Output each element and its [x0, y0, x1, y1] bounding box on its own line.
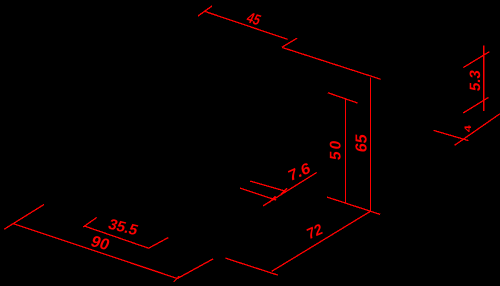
svg-text:5.3: 5.3	[467, 69, 484, 92]
dimension 35.5: left tick	[83, 217, 97, 227]
dimension 45: right tick	[282, 38, 297, 47]
dimension 35.5: right extension line	[149, 238, 169, 249]
dimension 35.5: dimension line	[85, 226, 149, 248]
dimension 45: dimension line	[205, 11, 288, 39]
dimension 45: left tick	[198, 6, 212, 16]
svg-text:65: 65	[352, 133, 370, 153]
dimension 50: vertical dimension line	[344, 99, 346, 202]
svg-text:7.6: 7.6	[287, 159, 313, 185]
svg-text:90: 90	[88, 233, 112, 254]
dimension 65: top extension line (oblique)	[282, 48, 380, 80]
dimension 7.6: upper tick	[281, 188, 287, 194]
dimension 7.6: upper extension line	[250, 181, 285, 191]
shared bottom extension line for 50 and 65	[327, 197, 380, 214]
dimension 90: dimension line	[14, 224, 177, 279]
dimension 4: extension line	[434, 130, 469, 140]
svg-text:72: 72	[305, 221, 324, 244]
dimension 65: vertical dimension line	[369, 77, 371, 211]
svg-text:4: 4	[463, 125, 473, 132]
dimension 72: bottom extension line	[226, 258, 278, 275]
dimension 5.3: top extension line	[463, 52, 489, 68]
dimension 7.6: lower tick	[269, 196, 275, 202]
dimension 72: dimension line	[272, 211, 371, 271]
dimension 7.6: lower extension line	[240, 188, 276, 200]
dimension 5.3: bottom extension line	[463, 97, 488, 113]
dimension 90: left extension line	[4, 205, 44, 230]
svg-text:50: 50	[328, 138, 345, 162]
dimension 90: right end tick	[174, 276, 180, 282]
dimension 50: top extension line (oblique)	[328, 93, 358, 103]
svg-text:45: 45	[244, 10, 264, 29]
dimension 4: dimension line	[455, 114, 500, 146]
dimension 5.3: vertical dimension line	[483, 45, 485, 110]
dimension 90: right extension line	[177, 259, 213, 279]
dimension 7.6: dimension line	[263, 172, 317, 206]
